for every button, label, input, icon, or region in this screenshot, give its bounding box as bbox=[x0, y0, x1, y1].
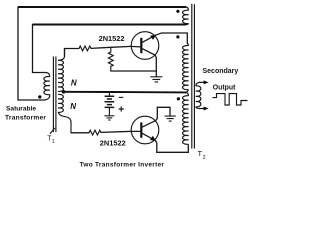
secondary bottom lead with arrow bbox=[200, 108, 205, 110]
resistor R2 (base-emitter, vertical) bbox=[108, 47, 113, 71]
transformer T2 primary section B bbox=[183, 44, 189, 93]
wire Q2 emitter to T2 winding C bottom bbox=[155, 140, 188, 152]
wire outer-left vertical bbox=[17, 7, 19, 100]
wire T1 top tap riser bbox=[65, 49, 80, 57]
wire inner-left vertical bbox=[32, 25, 34, 73]
output square wave symbol bbox=[213, 94, 248, 105]
transformer T1 primary (left) winding bbox=[44, 73, 50, 101]
wire T1 bottom tap to R3 bbox=[71, 132, 89, 134]
battery minus label bbox=[119, 96, 123, 98]
battery plus label bbox=[119, 106, 124, 111]
svg-text:2N1522: 2N1522 bbox=[100, 138, 126, 147]
svg-text:Secondary: Secondary bbox=[203, 68, 239, 75]
node dot T2 section C bbox=[177, 97, 180, 100]
transformer T1 secondary upper half (N) bbox=[58, 49, 64, 92]
svg-text:1: 1 bbox=[52, 139, 55, 145]
svg-text:2N1522: 2N1522 bbox=[99, 34, 125, 43]
ground for Q2 bbox=[165, 116, 176, 121]
svg-text:N: N bbox=[70, 102, 76, 111]
node dot T1 centre tap bbox=[62, 90, 66, 94]
node dot T1 primary bottom bbox=[38, 95, 41, 98]
node dot T2 section B bbox=[176, 35, 179, 38]
node dot T2 section A bbox=[176, 10, 179, 13]
transformer T1 core bbox=[53, 57, 56, 133]
svg-text:Saturable: Saturable bbox=[6, 106, 36, 113]
ground for battery bbox=[104, 116, 114, 120]
transformer T2 primary section C bbox=[183, 92, 189, 146]
svg-text:Transformer: Transformer bbox=[5, 114, 46, 121]
ground for Q1 bbox=[150, 77, 162, 82]
wire Q1 emitter to T2 winding B bbox=[155, 33, 187, 44]
wire R2 bottom to emitter/ground node bbox=[111, 70, 157, 72]
resistor R1 (top base resistor) bbox=[79, 46, 91, 51]
wire R3 to Q2 base bbox=[101, 131, 131, 132]
wire inner horizontal to T1 primary top bbox=[33, 72, 47, 74]
transistor Q2 (2N1522 bottom) bbox=[131, 116, 159, 144]
transformer T1 secondary lower half (N) bbox=[58, 94, 71, 132]
resistor R3 (bottom base resistor) bbox=[89, 130, 101, 135]
wire bottom-left horizontal to T1 primary bottom bbox=[18, 99, 45, 101]
svg-text:2: 2 bbox=[203, 155, 206, 161]
secondary top lead with arrow bbox=[200, 81, 205, 83]
wire Q1 collector down bbox=[155, 59, 157, 77]
battery B1 bbox=[105, 92, 115, 115]
wire top rail (feedback loop outer) bbox=[18, 6, 186, 8]
svg-text:N: N bbox=[71, 79, 77, 88]
transistor Q1 (2N1522 top) bbox=[131, 32, 159, 60]
wire R1 to Q1 base bbox=[91, 46, 131, 48]
transformer T2 secondary winding bbox=[196, 82, 201, 108]
transformer T2 primary section A bbox=[183, 7, 189, 25]
T1 core slash mark bbox=[50, 128, 55, 134]
wire Q2 collector up to ground bbox=[157, 107, 170, 117]
transformer T2 core bbox=[192, 4, 195, 149]
svg-text:Output: Output bbox=[213, 84, 236, 91]
wire centre-tap rail to T2 bbox=[64, 91, 186, 94]
svg-text:Two Transformer Inverter: Two Transformer Inverter bbox=[80, 162, 165, 169]
wire second rail (feedback loop inner) bbox=[33, 24, 187, 26]
